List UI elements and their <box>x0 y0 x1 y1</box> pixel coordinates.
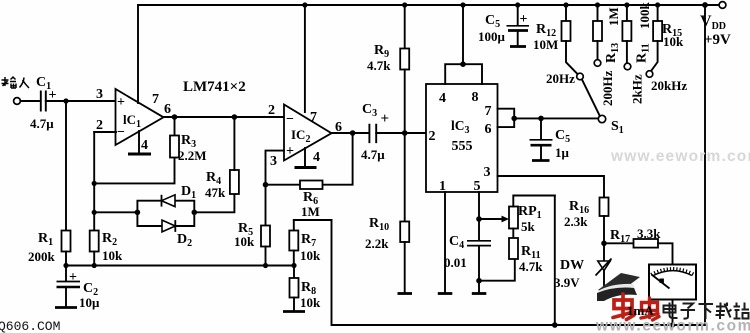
pin 1 label 555 <box>439 179 446 194</box>
svg-text:2.3k: 2.3k <box>564 214 588 229</box>
svg-text:10k: 10k <box>234 234 255 249</box>
capacitor C5 1u <box>530 118 571 160</box>
wire R7 top to bottom rail riser <box>294 219 332 221</box>
svg-text:R11: R11 <box>635 43 652 63</box>
svg-text:4: 4 <box>141 138 148 153</box>
svg-text:4: 4 <box>313 150 320 165</box>
svg-text:+: + <box>117 95 125 110</box>
resistor R10 2.2k <box>365 133 409 292</box>
wire C3 to 555 pin2 <box>376 130 426 136</box>
svg-text:2: 2 <box>96 118 103 133</box>
svg-text:3: 3 <box>484 165 491 180</box>
node S1 contact 200Hz <box>594 60 615 106</box>
wire pin2 to diode box <box>94 211 137 213</box>
wire bias bus <box>63 263 296 268</box>
svg-text:+: + <box>286 144 294 159</box>
wire 555 pins 7-6 bridge <box>498 109 518 127</box>
svg-text:C4: C4 <box>449 234 464 251</box>
svg-text:100μ: 100μ <box>478 29 506 44</box>
pin 4 label 555 <box>439 91 446 106</box>
diode box D1 D2 <box>135 201 198 226</box>
svg-text:2kHz: 2kHz <box>630 74 645 104</box>
ground C2 <box>55 306 77 309</box>
pin 4 label IC1 <box>141 138 148 153</box>
svg-text:10k: 10k <box>663 34 684 49</box>
svg-text:+: + <box>520 12 528 27</box>
svg-text:C3: C3 <box>362 102 377 119</box>
wire IC1 pin2 input <box>94 131 116 133</box>
node input terminal 输入 <box>2 77 30 104</box>
svg-text:2: 2 <box>429 129 436 144</box>
svg-text:+9V: +9V <box>704 32 731 48</box>
op-amp IC2 <box>284 105 332 161</box>
svg-text:3: 3 <box>270 154 277 169</box>
svg-text:4.7μ: 4.7μ <box>361 147 385 162</box>
node S1 contact 20Hz <box>546 71 583 86</box>
node R16 zener R17 junction <box>601 241 607 247</box>
capacitor C5a 100u top <box>478 5 529 45</box>
svg-text:4: 4 <box>439 91 446 106</box>
wire IC1 pin7 to VDD rail <box>137 5 139 103</box>
svg-text:20Hz: 20Hz <box>546 71 575 86</box>
svg-text:1mA: 1mA <box>627 303 654 318</box>
svg-text:VDD: VDD <box>700 13 726 32</box>
resistor R5 10k <box>234 185 270 266</box>
wire 555 pin3 output to R16 <box>498 176 605 198</box>
svg-text:555: 555 <box>452 139 473 154</box>
svg-text:1M: 1M <box>606 7 621 26</box>
svg-text:3.9V: 3.9V <box>554 275 580 290</box>
meter 1mA <box>649 265 696 300</box>
svg-text:D2: D2 <box>177 232 192 249</box>
zener diode DW 3.9V <box>554 243 612 293</box>
resistor R16 2.3k <box>564 198 609 244</box>
svg-text:7: 7 <box>485 104 492 119</box>
wire diode box to R4 <box>194 194 234 212</box>
ground DW zener <box>597 293 611 296</box>
svg-text:4.7μ: 4.7μ <box>30 116 54 131</box>
resistor R1 200k <box>28 101 71 266</box>
wire bottom rail <box>332 220 706 325</box>
diode D2 <box>162 220 192 249</box>
svg-text:3.3k: 3.3k <box>637 226 661 241</box>
resistor R9 4.7k <box>367 5 409 133</box>
wire 555 pin5 node <box>476 192 482 222</box>
svg-text:5k: 5k <box>521 219 536 234</box>
resistor R3 2.2M <box>170 117 207 163</box>
svg-text:R13: R13 <box>604 43 621 63</box>
text 电子下载站 watermark <box>664 303 750 320</box>
logo graduation cap watermark <box>597 273 640 301</box>
pin 8 label 555 <box>472 90 479 105</box>
svg-text:6: 6 <box>164 102 171 117</box>
svg-text:0.01: 0.01 <box>444 255 467 270</box>
wire VDD right drop to bottom rail <box>704 5 706 325</box>
svg-text:Q606.COM: Q606.COM <box>0 319 60 333</box>
wire IC2 pin3 input <box>263 151 284 188</box>
svg-text:4.7k: 4.7k <box>519 259 543 274</box>
resistor R8 10k <box>290 266 322 311</box>
resistor R4 47k <box>205 117 239 200</box>
node S1 contact 20kHz <box>646 71 687 93</box>
svg-text:1M: 1M <box>301 204 320 219</box>
svg-text:7: 7 <box>152 92 159 107</box>
resistor R12 10M <box>533 5 578 74</box>
ground C4 <box>472 278 487 294</box>
svg-text:LM741×2: LM741×2 <box>183 79 246 95</box>
svg-text:1μ: 1μ <box>555 145 570 160</box>
resistor R7 10k <box>289 220 321 266</box>
svg-text:200k: 200k <box>28 249 56 264</box>
svg-text:10k: 10k <box>102 248 123 263</box>
svg-text:DW: DW <box>560 258 584 273</box>
pin 3 label 555 <box>484 165 491 180</box>
timer IC3 555 <box>426 84 498 192</box>
svg-text:10M: 10M <box>533 37 558 52</box>
pin 2 label 555 <box>429 129 436 144</box>
svg-text:www.eeworm.com: www.eeworm.com <box>610 148 750 165</box>
svg-text:7: 7 <box>310 110 317 125</box>
ground 555 pin1 <box>438 192 453 294</box>
node S1 contact 2kHz <box>624 63 644 104</box>
potentiometer RP1 5k <box>479 196 555 235</box>
wire input to C1 <box>20 100 39 102</box>
svg-text:R1: R1 <box>38 231 53 248</box>
pin 3 label IC2 <box>270 154 277 169</box>
pin 4 label IC2 <box>313 150 320 165</box>
wire meter to bottom rail <box>670 300 675 328</box>
wire pin2 node vertical <box>92 132 97 231</box>
wire feedback R3 line <box>94 157 174 183</box>
wire 555 pins 4-8 bridge to VDD <box>445 5 482 84</box>
capacitor C1 4.7u <box>30 75 57 131</box>
svg-text:R17: R17 <box>610 228 630 245</box>
ground IC1 pin4 <box>128 131 151 154</box>
svg-text:8: 8 <box>472 90 479 105</box>
pin 3 label IC1 <box>96 87 103 102</box>
svg-text:D1: D1 <box>181 184 196 201</box>
svg-text:10μ: 10μ <box>79 295 100 310</box>
resistor R13 1M <box>593 5 621 63</box>
svg-text:6: 6 <box>485 122 492 137</box>
text www.eeworm.com watermark <box>595 318 750 333</box>
pin 2 label IC1 <box>96 118 103 133</box>
pin 5 label 555 <box>474 179 481 194</box>
wire C1 to IC1 pin3 <box>46 98 116 103</box>
power VDD terminal +9V <box>700 2 731 48</box>
svg-text:47k: 47k <box>205 185 226 200</box>
wire C4 bottom to R14 bottom <box>479 259 515 281</box>
resistor R14a 100k <box>622 2 652 64</box>
ground IC2 pin4 <box>295 148 317 168</box>
text 1mA meter label <box>627 303 654 318</box>
diode D1 <box>162 184 197 207</box>
svg-text:S1: S1 <box>611 119 624 136</box>
pin 6 label IC2 <box>335 120 342 135</box>
svg-text:4.7k: 4.7k <box>367 58 391 73</box>
text Q606.COM watermark <box>0 319 60 333</box>
svg-text:2.2k: 2.2k <box>365 236 389 251</box>
svg-text:C5: C5 <box>485 13 500 30</box>
logo red bug characters watermark <box>613 294 659 320</box>
svg-text:R7: R7 <box>301 232 316 249</box>
svg-text:100k: 100k <box>637 2 652 30</box>
capacitor C2 10u <box>57 266 101 311</box>
text LM741x2 <box>183 79 246 95</box>
pin 7 label IC1 <box>152 92 159 107</box>
svg-text:200Hz: 200Hz <box>600 70 615 106</box>
svg-text:R10: R10 <box>369 216 389 233</box>
wire top VDD rail <box>138 4 719 6</box>
node top rail junction dots <box>302 2 708 8</box>
resistor R2 10k <box>90 231 123 266</box>
resistor R17 3.3k <box>604 226 673 264</box>
op-amp IC1 <box>116 89 164 145</box>
svg-text:+: + <box>381 111 390 127</box>
pin 6 label 555 <box>485 122 492 137</box>
svg-text:C5: C5 <box>555 128 570 145</box>
svg-text:10k: 10k <box>300 295 321 310</box>
ground R8 <box>283 310 305 313</box>
text www.eeworm.com faint watermark <box>610 148 750 165</box>
capacitor C3 4.7u <box>361 102 389 162</box>
pin 7 label IC2 <box>310 110 317 125</box>
svg-text:10k: 10k <box>300 248 321 263</box>
svg-text:R2: R2 <box>102 231 117 248</box>
svg-text:www.eeworm.com: www.eeworm.com <box>595 318 750 333</box>
wire IC1 out to IC2 pin2 <box>164 114 285 120</box>
wire IC2 out to C3 <box>332 130 370 136</box>
resistor R15 10k <box>651 5 684 71</box>
svg-text:2.2M: 2.2M <box>178 148 207 163</box>
wire RP1 top to bottom rail <box>552 196 558 328</box>
svg-text:2: 2 <box>268 103 275 118</box>
pin 2 label IC2 <box>268 103 275 118</box>
ground C5 1u <box>532 159 550 162</box>
wire IC2 pin7 to VDD rail <box>304 5 306 112</box>
pin 6 label IC1 <box>164 102 171 117</box>
resistor R14 4.7k below RP1 <box>509 229 543 275</box>
wire 555 pin7/6 node to S1 <box>514 116 598 122</box>
svg-text:20kHz: 20kHz <box>651 78 687 93</box>
switch S1 <box>582 80 624 137</box>
svg-text:−: − <box>117 125 125 140</box>
svg-text:3: 3 <box>96 87 103 102</box>
resistor R6 1M feedback <box>266 133 353 219</box>
ground C5a 100u <box>510 45 526 48</box>
ground R10 <box>398 292 413 295</box>
svg-text:+: + <box>69 270 77 285</box>
pin 7 label 555 <box>485 104 492 119</box>
svg-text:−: − <box>286 112 294 127</box>
capacitor C4 0.01 <box>444 219 491 281</box>
